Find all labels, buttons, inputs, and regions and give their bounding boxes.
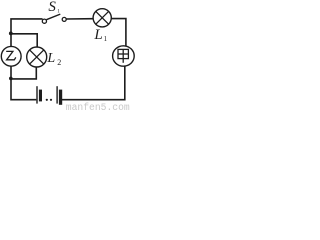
wire switch to lamp L1 — [66, 18, 93, 20]
wire meter-jia down to bottom-right corner and left to battery — [62, 66, 125, 99]
switch S1 left contact — [42, 19, 46, 23]
svg-text:manfen5.com: manfen5.com — [66, 102, 130, 111]
wire lamp L2 bottom to junction — [11, 67, 36, 79]
wire battery to bottom-left corner and up left rail — [11, 78, 36, 99]
battery cell 2 short thick plate — [59, 90, 62, 105]
lamp L2 cross — [30, 50, 44, 64]
lamp L1 circle — [93, 9, 111, 27]
wire top-left: left vertical rail top + top wire to switch — [11, 19, 43, 34]
svg-text:L: L — [46, 51, 55, 66]
svg-text:2: 2 — [57, 58, 61, 67]
switch S1 blade — [46, 14, 60, 20]
meter yi (B) circle — [1, 46, 21, 66]
wire lamp L1 to top-right corner and down to meter-jia — [111, 19, 126, 47]
lamp L1 cross — [96, 11, 109, 24]
svg-text:S: S — [48, 0, 56, 15]
switch S1 right contact — [62, 17, 66, 21]
battery cell 1 short thick plate — [39, 90, 42, 102]
svg-text:L: L — [93, 27, 102, 43]
battery cell 2 long plate — [56, 86, 58, 103]
node junction dot top-left — [9, 32, 13, 36]
svg-text:1: 1 — [104, 35, 108, 43]
lamp L2 circle — [27, 47, 47, 67]
node junction dot bottom-left — [9, 77, 13, 81]
wire branch: junction right and down to lamp L2 — [11, 34, 37, 47]
meter jia glyph (Chinese jia) drawn as strokes — [118, 49, 128, 62]
battery cell 1 long plate — [36, 86, 38, 103]
battery dots — [46, 99, 48, 101]
wire meter-yi bottom to junction — [10, 66, 12, 79]
meter jia (A) circle — [113, 46, 135, 66]
wire left rail: junction to meter-yi top — [10, 33, 12, 46]
meter yi glyph (Chinese yi) drawn as strokes — [6, 51, 16, 59]
